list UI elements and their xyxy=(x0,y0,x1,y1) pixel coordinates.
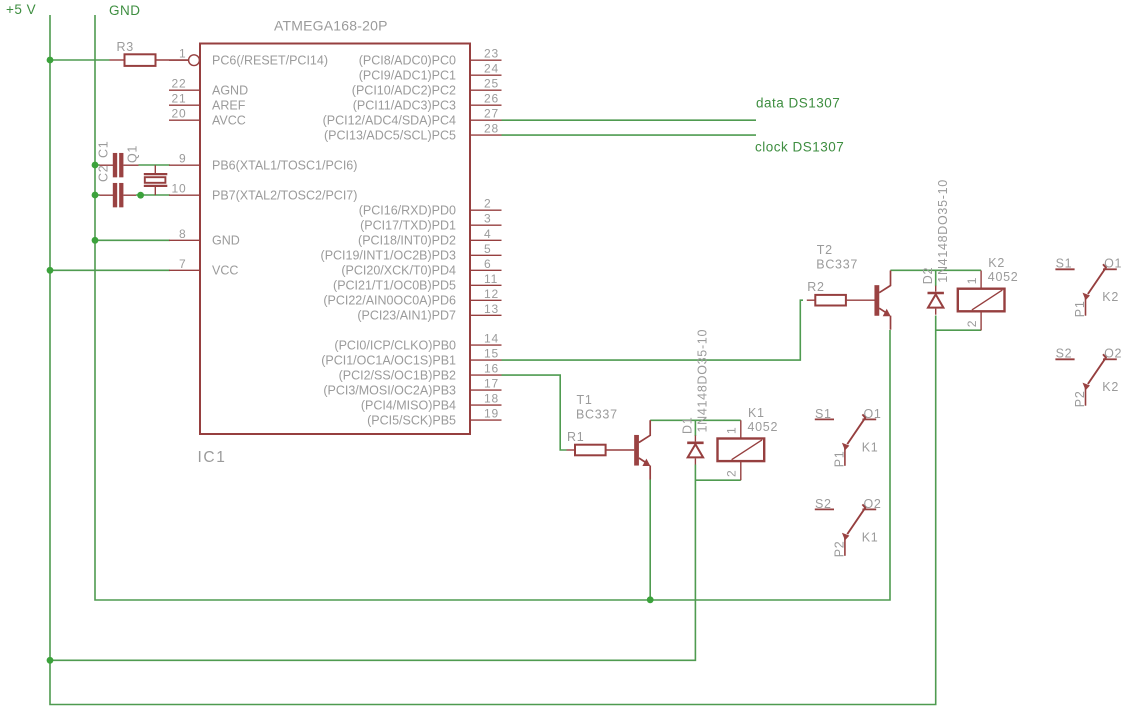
label K2 4052 xyxy=(988,256,1019,284)
IC1 pin 14 ((PCI0/ICP/CLKO)PB0) xyxy=(334,332,501,353)
IC1 pin 3 ((PCI17/TXD)PD1) xyxy=(360,212,501,233)
IC1 pin 8 (GND) xyxy=(169,227,240,248)
label T2 xyxy=(816,243,858,272)
junction GND/T1 emitter xyxy=(647,596,654,603)
svg-text:11: 11 xyxy=(484,272,498,286)
crystal Q1 electrode plates xyxy=(144,174,168,186)
wire GND to C2 xyxy=(95,194,100,196)
svg-text:1: 1 xyxy=(965,277,979,284)
svg-text:K2: K2 xyxy=(1102,290,1119,304)
svg-text:Q1: Q1 xyxy=(126,145,140,163)
IC1 pin 11 ((PCI21/T1/OC0B)PD5) xyxy=(333,272,501,293)
IC1 pin 7 (VCC) xyxy=(169,257,238,278)
contact K2 P1: arm xyxy=(1083,264,1106,300)
wire C1 to pin9 xyxy=(139,164,171,166)
svg-text:(PCI1/OC1A/OC1S)PB1: (PCI1/OC1A/OC1S)PB1 xyxy=(321,354,456,368)
svg-text:21: 21 xyxy=(172,92,187,106)
svg-text:D2: D2 xyxy=(921,267,935,284)
IC1 pin 25 ((PCI10/ADC2)PC2) xyxy=(352,77,502,98)
svg-text:O1: O1 xyxy=(1104,257,1122,271)
svg-text:18: 18 xyxy=(484,392,499,406)
IC1 pin 21 (AREF) xyxy=(169,92,246,113)
svg-text:AGND: AGND xyxy=(212,84,248,98)
svg-text:O2: O2 xyxy=(864,497,882,511)
wire D1 anode to +5V xyxy=(50,465,695,661)
resistor R1 pin wires xyxy=(567,449,635,451)
relay K1 coil pin 1 xyxy=(725,420,741,438)
svg-text:4052: 4052 xyxy=(748,420,779,434)
svg-text:(PCI23/AIN1)PD7: (PCI23/AIN1)PD7 xyxy=(357,309,456,323)
svg-text:(PCI10/ADC2)PC2: (PCI10/ADC2)PC2 xyxy=(352,84,456,98)
svg-text:P2: P2 xyxy=(832,541,846,558)
resistor R1 body xyxy=(575,445,606,456)
svg-text:10: 10 xyxy=(172,182,187,196)
svg-text:IC1: IC1 xyxy=(198,449,227,466)
svg-text:P2: P2 xyxy=(1073,390,1087,407)
value 1N4148DO35-10 of D1 xyxy=(696,329,710,433)
svg-text:(PCI9/ADC1)PC1: (PCI9/ADC1)PC1 xyxy=(359,69,456,83)
diode D2 cathode pin xyxy=(935,286,937,292)
svg-text:K2: K2 xyxy=(1102,380,1119,394)
junction +5V/R3 xyxy=(47,57,54,64)
svg-text:T1: T1 xyxy=(577,393,593,407)
wire T1 collector to D1 cathode xyxy=(694,420,696,436)
svg-text:8: 8 xyxy=(179,227,186,241)
IC1 pin 4 ((PCI18/INT0)PD2) xyxy=(358,227,501,248)
svg-text:O2: O2 xyxy=(1104,347,1122,361)
svg-text:C2: C2 xyxy=(97,165,111,182)
relay K2 coil pin 1 xyxy=(965,271,981,289)
svg-text:BC337: BC337 xyxy=(576,408,618,422)
contact K1 P1: throw stub O1 xyxy=(862,407,881,421)
crystal Q1 body xyxy=(145,177,166,183)
svg-text:VCC: VCC xyxy=(212,264,238,278)
svg-text:C1: C1 xyxy=(97,141,111,158)
diode D2 anode triangle xyxy=(928,294,943,307)
contact K2 P1: pole stub S1 xyxy=(1055,257,1074,271)
IC1 pin 17 ((PCI3/MOSI/OC2A)PB3) xyxy=(323,377,501,398)
contact K1 P1: pole pin xyxy=(844,448,846,466)
label Q1 xyxy=(126,145,140,163)
svg-text:(PCI4/MISO)PB4: (PCI4/MISO)PB4 xyxy=(361,399,456,413)
label K2 (contact) xyxy=(1102,290,1119,304)
contact K1 P2: pole pin xyxy=(844,538,846,556)
relay K1 coil body xyxy=(718,439,765,462)
wire GND rail xyxy=(95,15,890,600)
svg-text:4: 4 xyxy=(484,227,491,241)
svg-text:(PCI19/INT1/OC2B)PD3: (PCI19/INT1/OC2B)PD3 xyxy=(321,249,457,263)
IC1 pin 15 ((PCI1/OC1A/OC1S)PB1) xyxy=(321,347,501,368)
IC1 pin 27 ((PCI12/ADC4/SDA)PC4) xyxy=(323,107,502,128)
wire D2/K2 bottom link xyxy=(936,329,981,331)
contact K2 P2: throw stub O2 xyxy=(1103,347,1122,361)
svg-text:(PCI8/ADC0)PC0: (PCI8/ADC0)PC0 xyxy=(359,54,456,68)
svg-text:(PCI3/MOSI/OC2A)PB3: (PCI3/MOSI/OC2A)PB3 xyxy=(323,384,456,398)
svg-text:P1: P1 xyxy=(1073,300,1087,317)
IC1 pin 13 ((PCI23/AIN1)PD7) xyxy=(357,302,501,323)
capacitor C2 plates xyxy=(113,183,123,207)
wire T1 collector net xyxy=(650,419,741,421)
svg-text:19: 19 xyxy=(484,407,499,421)
svg-text:PC6(/RESET/PCI14): PC6(/RESET/PCI14) xyxy=(212,54,328,68)
svg-text:27: 27 xyxy=(484,107,499,121)
IC1 pin 19 ((PCI5/SCK)PB5) xyxy=(367,407,501,428)
svg-text:1N4148DO35-10: 1N4148DO35-10 xyxy=(936,179,950,283)
wire T1 emitter to GND xyxy=(649,479,651,600)
junction GND/pin8 xyxy=(92,237,99,244)
IC1 pin 24 ((PCI9/ADC1)PC1) xyxy=(359,62,502,83)
svg-text:(PCI0/ICP/CLKO)PB0: (PCI0/ICP/CLKO)PB0 xyxy=(334,339,456,353)
IC1 pin 23 ((PCI8/ADC0)PC0) xyxy=(359,47,502,68)
svg-text:BC337: BC337 xyxy=(816,258,858,272)
svg-text:1: 1 xyxy=(179,47,186,61)
value 1N4148DO35-10 of D2 xyxy=(936,179,950,283)
label P1 xyxy=(1073,300,1087,317)
svg-text:14: 14 xyxy=(484,332,499,346)
contact K2 P2: arm xyxy=(1083,354,1106,390)
wire +5V to pin7 VCC xyxy=(50,269,170,271)
contact K1 P1: pole stub S1 xyxy=(815,407,834,421)
svg-text:13: 13 xyxy=(484,302,499,316)
transistor T2 base bar xyxy=(875,285,880,316)
label K2 (contact) xyxy=(1102,380,1119,394)
junction GND/C2 xyxy=(92,192,99,199)
label R3 xyxy=(117,40,134,54)
svg-text:R1: R1 xyxy=(567,430,584,444)
svg-text:GND: GND xyxy=(212,234,240,248)
svg-text:O1: O1 xyxy=(864,407,882,421)
svg-text:(PCI16/RXD)PD0: (PCI16/RXD)PD0 xyxy=(359,204,456,218)
capacitor C2 pin wires xyxy=(100,194,137,196)
wire +5V to R3 (pin1 net) xyxy=(50,59,110,61)
IC1 pin 18 ((PCI4/MISO)PB4) xyxy=(361,392,502,413)
transistor T1 base bar xyxy=(634,435,639,466)
svg-text:(PCI2/SS/OC1B)PB2: (PCI2/SS/OC1B)PB2 xyxy=(339,369,456,383)
svg-text:PB6(XTAL1/TOSC1/PCI6): PB6(XTAL1/TOSC1/PCI6) xyxy=(212,159,357,173)
svg-text:(PCI17/TXD)PD1: (PCI17/TXD)PD1 xyxy=(360,219,456,233)
resistor R3 pin wires xyxy=(110,59,190,61)
label D2 xyxy=(921,267,935,284)
net label +5V xyxy=(6,2,36,17)
diode D1 anode triangle xyxy=(688,444,703,457)
diode D2 anode pin xyxy=(935,309,937,315)
label P1 xyxy=(832,451,846,468)
junction node XTAL2 xyxy=(137,192,144,199)
svg-text:K1: K1 xyxy=(862,530,879,544)
svg-text:data DS1307: data DS1307 xyxy=(756,96,840,111)
contact K1 P2: throw stub O2 xyxy=(862,497,881,511)
label K1 (contact) xyxy=(862,440,879,454)
transistor T1 collector xyxy=(639,420,650,442)
svg-text:K1: K1 xyxy=(748,406,765,420)
wire T2 collector to D2 cathode xyxy=(935,270,937,286)
wire SDA (pin27 to data DS1307) xyxy=(502,119,757,121)
svg-text:ATMEGA168-20P: ATMEGA168-20P xyxy=(274,18,388,34)
IC1 pin 10 (PB7(XTAL2/TOSC2/PCI7)) xyxy=(169,182,357,203)
IC1 pin 12 ((PCI22/AIN0OC0A)PD6) xyxy=(323,287,501,308)
svg-text:25: 25 xyxy=(484,77,499,91)
diode D1 cathode bar xyxy=(687,441,703,444)
label P2 xyxy=(832,541,846,558)
relay K1 coil diagonal xyxy=(732,440,762,460)
svg-text:S2: S2 xyxy=(1056,347,1073,361)
svg-text:(PCI21/T1/OC0B)PD5: (PCI21/T1/OC0B)PD5 xyxy=(333,279,456,293)
relay K2 coil pin 2 xyxy=(965,311,981,330)
label ATMEGA168-20P xyxy=(274,18,388,34)
IC1 pin 2 ((PCI16/RXD)PD0) xyxy=(359,197,502,218)
svg-text:K2: K2 xyxy=(988,256,1005,270)
svg-text:(PCI20/XCK/T0)PD4: (PCI20/XCK/T0)PD4 xyxy=(341,264,456,278)
wire pin16 to R1 xyxy=(502,375,567,450)
label C1 xyxy=(97,141,111,158)
svg-text:1N4148DO35-10: 1N4148DO35-10 xyxy=(696,329,710,433)
svg-text:D1: D1 xyxy=(681,417,695,434)
relay K2 coil diagonal xyxy=(972,290,1002,310)
contact K1 P1: arm xyxy=(842,414,865,450)
label C2 xyxy=(97,165,111,182)
transistor T2 emitter xyxy=(879,308,891,330)
svg-text:9: 9 xyxy=(179,152,186,166)
wire pin15 to R2 xyxy=(502,300,804,360)
wire GND to pin8 xyxy=(95,239,170,241)
svg-text:(PCI22/AIN0OC0A)PD6: (PCI22/AIN0OC0A)PD6 xyxy=(323,294,456,308)
wire T2 collector net xyxy=(890,269,981,271)
contact K2 P2: pole pin xyxy=(1085,388,1087,406)
svg-text:T2: T2 xyxy=(817,243,833,257)
diode D2 cathode bar xyxy=(928,292,944,295)
svg-text:S1: S1 xyxy=(1056,257,1073,271)
label D1 xyxy=(681,417,695,434)
contact K2 P1: throw stub O1 xyxy=(1103,257,1122,271)
label R2 xyxy=(807,280,824,294)
svg-text:R3: R3 xyxy=(117,40,134,54)
svg-text:16: 16 xyxy=(484,362,499,376)
svg-text:22: 22 xyxy=(172,77,187,91)
net label GND xyxy=(109,3,141,18)
svg-text:AVCC: AVCC xyxy=(212,114,246,128)
label K1 (contact) xyxy=(862,530,879,544)
svg-text:5: 5 xyxy=(484,242,491,256)
label IC1 xyxy=(198,449,227,466)
svg-text:K1: K1 xyxy=(862,440,879,454)
IC IC1 box (ATMEGA168-20P) xyxy=(200,44,470,435)
label K1 4052 xyxy=(748,406,779,434)
IC1 pin 26 ((PCI11/ADC3)PC3) xyxy=(353,92,502,113)
resistor R2 pin wires xyxy=(807,299,875,301)
svg-text:2: 2 xyxy=(725,470,739,477)
IC1 pin 1 (PC6(/RESET/PCI14)) xyxy=(169,47,328,68)
svg-text:+5 V: +5 V xyxy=(6,2,36,17)
svg-text:GND: GND xyxy=(109,3,141,18)
svg-text:20: 20 xyxy=(172,107,187,121)
svg-text:24: 24 xyxy=(484,62,499,76)
IC1 pin 5 ((PCI19/INT1/OC2B)PD3) xyxy=(321,242,502,263)
net label data DS1307 xyxy=(756,96,840,111)
net label clock DS1307 xyxy=(755,140,844,155)
contact K1 P2: arm xyxy=(842,504,865,540)
contact K2 P2: pole stub S2 xyxy=(1055,347,1074,361)
wire SCL (pin28 to clock DS1307) xyxy=(502,134,757,136)
svg-text:(PCI12/ADC4/SDA)PC4: (PCI12/ADC4/SDA)PC4 xyxy=(323,114,456,128)
svg-text:1: 1 xyxy=(725,427,739,434)
svg-text:(PCI18/INT0)PD2: (PCI18/INT0)PD2 xyxy=(358,234,456,248)
junction +5V/D1 net xyxy=(47,657,54,664)
svg-text:17: 17 xyxy=(484,377,499,391)
svg-text:R2: R2 xyxy=(807,280,824,294)
label P2 xyxy=(1073,390,1087,407)
svg-text:(PCI11/ADC3)PC3: (PCI11/ADC3)PC3 xyxy=(353,99,456,113)
svg-text:clock DS1307: clock DS1307 xyxy=(755,140,844,155)
capacitor C1 plates xyxy=(113,153,123,177)
junction +5V/pin7 xyxy=(47,267,54,274)
resistor R3 body xyxy=(125,54,156,66)
svg-text:S1: S1 xyxy=(815,407,832,421)
svg-text:(PCI5/SCK)PB5: (PCI5/SCK)PB5 xyxy=(367,414,456,428)
svg-text:(PCI13/ADC5/SCL)PC5: (PCI13/ADC5/SCL)PC5 xyxy=(324,129,456,143)
wire GND to C1 xyxy=(95,164,100,166)
contact K1 P2: pole stub S2 xyxy=(815,497,834,511)
IC1 pin 20 (AVCC) xyxy=(169,107,246,128)
IC1 pin 22 (AGND) xyxy=(169,77,248,98)
wire D1/K1 bottom link xyxy=(695,479,740,481)
relay K1 coil pin 2 xyxy=(725,461,741,480)
svg-text:S2: S2 xyxy=(815,497,832,511)
junction GND/C1 xyxy=(92,162,99,169)
svg-text:6: 6 xyxy=(484,257,491,271)
svg-text:23: 23 xyxy=(484,47,499,61)
crystal Q1 stubs xyxy=(154,165,156,195)
capacitor C1 pin wires xyxy=(100,164,139,166)
wire +5V rail xyxy=(50,15,936,705)
svg-text:PB7(XTAL2/TOSC2/PCI7): PB7(XTAL2/TOSC2/PCI7) xyxy=(212,189,357,203)
resistor R2 body xyxy=(815,295,846,306)
svg-text:2: 2 xyxy=(484,197,491,211)
contact K2 P1: pole pin xyxy=(1085,298,1087,316)
wire C2 to pin10 xyxy=(136,194,170,196)
svg-text:7: 7 xyxy=(179,257,186,271)
svg-text:AREF: AREF xyxy=(212,99,246,113)
svg-text:2: 2 xyxy=(965,320,979,327)
svg-text:28: 28 xyxy=(484,122,499,136)
svg-text:15: 15 xyxy=(484,347,499,361)
svg-text:3: 3 xyxy=(484,212,491,226)
relay K2 coil body xyxy=(958,289,1005,312)
label R1 xyxy=(567,430,584,444)
transistor T1 emitter xyxy=(639,458,651,480)
IC1 pin 16 ((PCI2/SS/OC1B)PB2) xyxy=(339,362,502,383)
svg-text:4052: 4052 xyxy=(988,270,1019,284)
IC1 pin 9 (PB6(XTAL1/TOSC1/PCI6)) xyxy=(169,152,357,173)
IC1 pin 28 ((PCI13/ADC5/SCL)PC5) xyxy=(324,122,502,143)
svg-text:12: 12 xyxy=(484,287,499,301)
IC1 pin 1 inversion circle xyxy=(189,55,200,66)
transistor T2 collector xyxy=(879,271,890,293)
svg-text:26: 26 xyxy=(484,92,499,106)
diode D1 cathode pin xyxy=(694,436,696,442)
diode D1 anode pin xyxy=(694,458,696,464)
label T1 xyxy=(576,393,618,422)
IC1 pin 6 ((PCI20/XCK/T0)PD4) xyxy=(341,257,501,278)
svg-text:P1: P1 xyxy=(832,451,846,468)
